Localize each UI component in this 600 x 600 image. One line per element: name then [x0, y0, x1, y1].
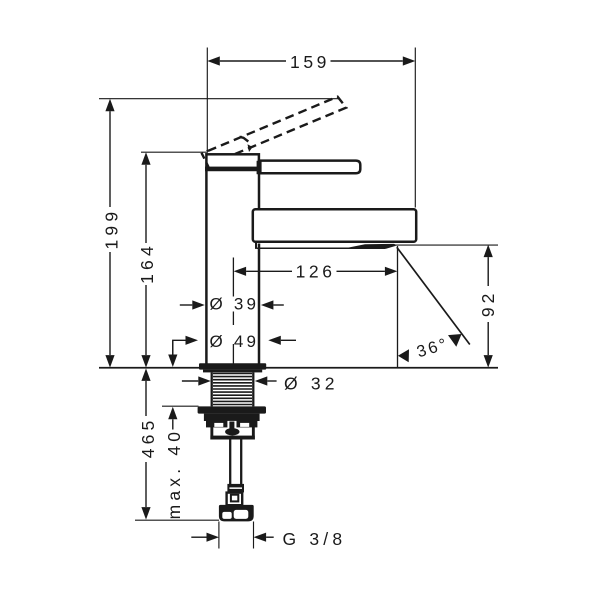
spout underside lip: [256, 243, 396, 249]
svg-text:Ø 49: Ø 49: [210, 332, 260, 351]
dimension 199: [102, 99, 122, 368]
wire extension line hose end (465 bottom): [135, 519, 219, 521]
svg-text:465: 465: [138, 416, 158, 458]
lever travel mark: [240, 137, 253, 152]
mounting nut body: [204, 414, 260, 421]
dimension Ø32: [182, 373, 339, 393]
dimension 159: [207, 52, 415, 72]
faucet body left edge: [205, 170, 208, 364]
dimension max 40: [164, 340, 184, 519]
drain rod bracket: [210, 421, 254, 440]
wire extension line nut top (max 40 bottom): [162, 405, 199, 407]
wire countertop baseline: [99, 367, 498, 369]
svg-text:159: 159: [290, 52, 330, 72]
nut lower band with slots: [206, 421, 257, 431]
svg-text:36°: 36°: [415, 335, 451, 362]
wire extension line right (159 right): [414, 48, 416, 208]
water stream line: [397, 247, 470, 344]
faucet handle cap: [205, 154, 262, 171]
dashed lever raised position: [208, 97, 346, 162]
wire extension line aerator level (92 top): [393, 244, 498, 246]
hose nipple: [227, 493, 243, 506]
wire extension lines G3/8 connector: [219, 522, 254, 549]
svg-text:126: 126: [296, 262, 336, 282]
faucet body right edge: [258, 174, 261, 364]
faucet lever arm: [257, 161, 361, 175]
svg-text:Ø 32: Ø 32: [284, 373, 339, 393]
wire extension line handle cap top (164 top): [141, 151, 208, 153]
threaded shank: [212, 372, 254, 406]
svg-text:164: 164: [137, 242, 157, 284]
hose ferrule: [227, 484, 244, 493]
faucet spout block: [253, 209, 416, 242]
svg-text:92: 92: [478, 290, 498, 317]
wire water drop vertical line: [397, 246, 399, 367]
escutcheon base plate: [199, 363, 266, 372]
dimension Ø49: [173, 332, 296, 355]
G3/8 connector: [219, 505, 254, 522]
dimension 126: [234, 262, 398, 282]
wire extension line left (159 left): [206, 48, 208, 152]
svg-text:G 3/8: G 3/8: [283, 529, 347, 549]
dimension G 3/8: [191, 529, 346, 549]
mounting nut flange: [198, 406, 266, 413]
dimension Ø39: [180, 294, 284, 313]
dimension 36 degrees: [398, 334, 462, 362]
svg-text:199: 199: [102, 208, 122, 250]
svg-text:Ø 39: Ø 39: [210, 294, 260, 313]
aerator wedge: [345, 244, 396, 249]
drain rod ball: [225, 428, 239, 435]
dimension 92: [478, 245, 498, 368]
dimension 465: [138, 368, 158, 519]
wire extension line top of raised lever (199 top): [99, 98, 338, 100]
dashed lever left end cap: [202, 153, 209, 167]
wire body centerline (dashed): [232, 258, 234, 367]
supply hose: [230, 440, 241, 485]
dimension 164: [137, 152, 157, 367]
svg-text:max. 40: max. 40: [164, 428, 184, 520]
